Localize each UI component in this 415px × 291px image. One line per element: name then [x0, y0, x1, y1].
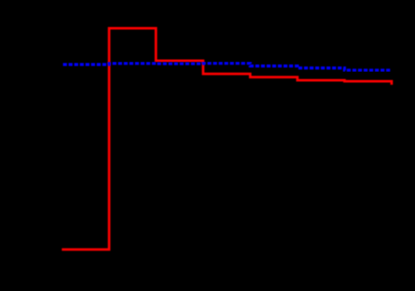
red step curve (histogram-style data line) — [62, 28, 392, 249]
blue dashed step curve (model line) — [63, 63, 391, 70]
